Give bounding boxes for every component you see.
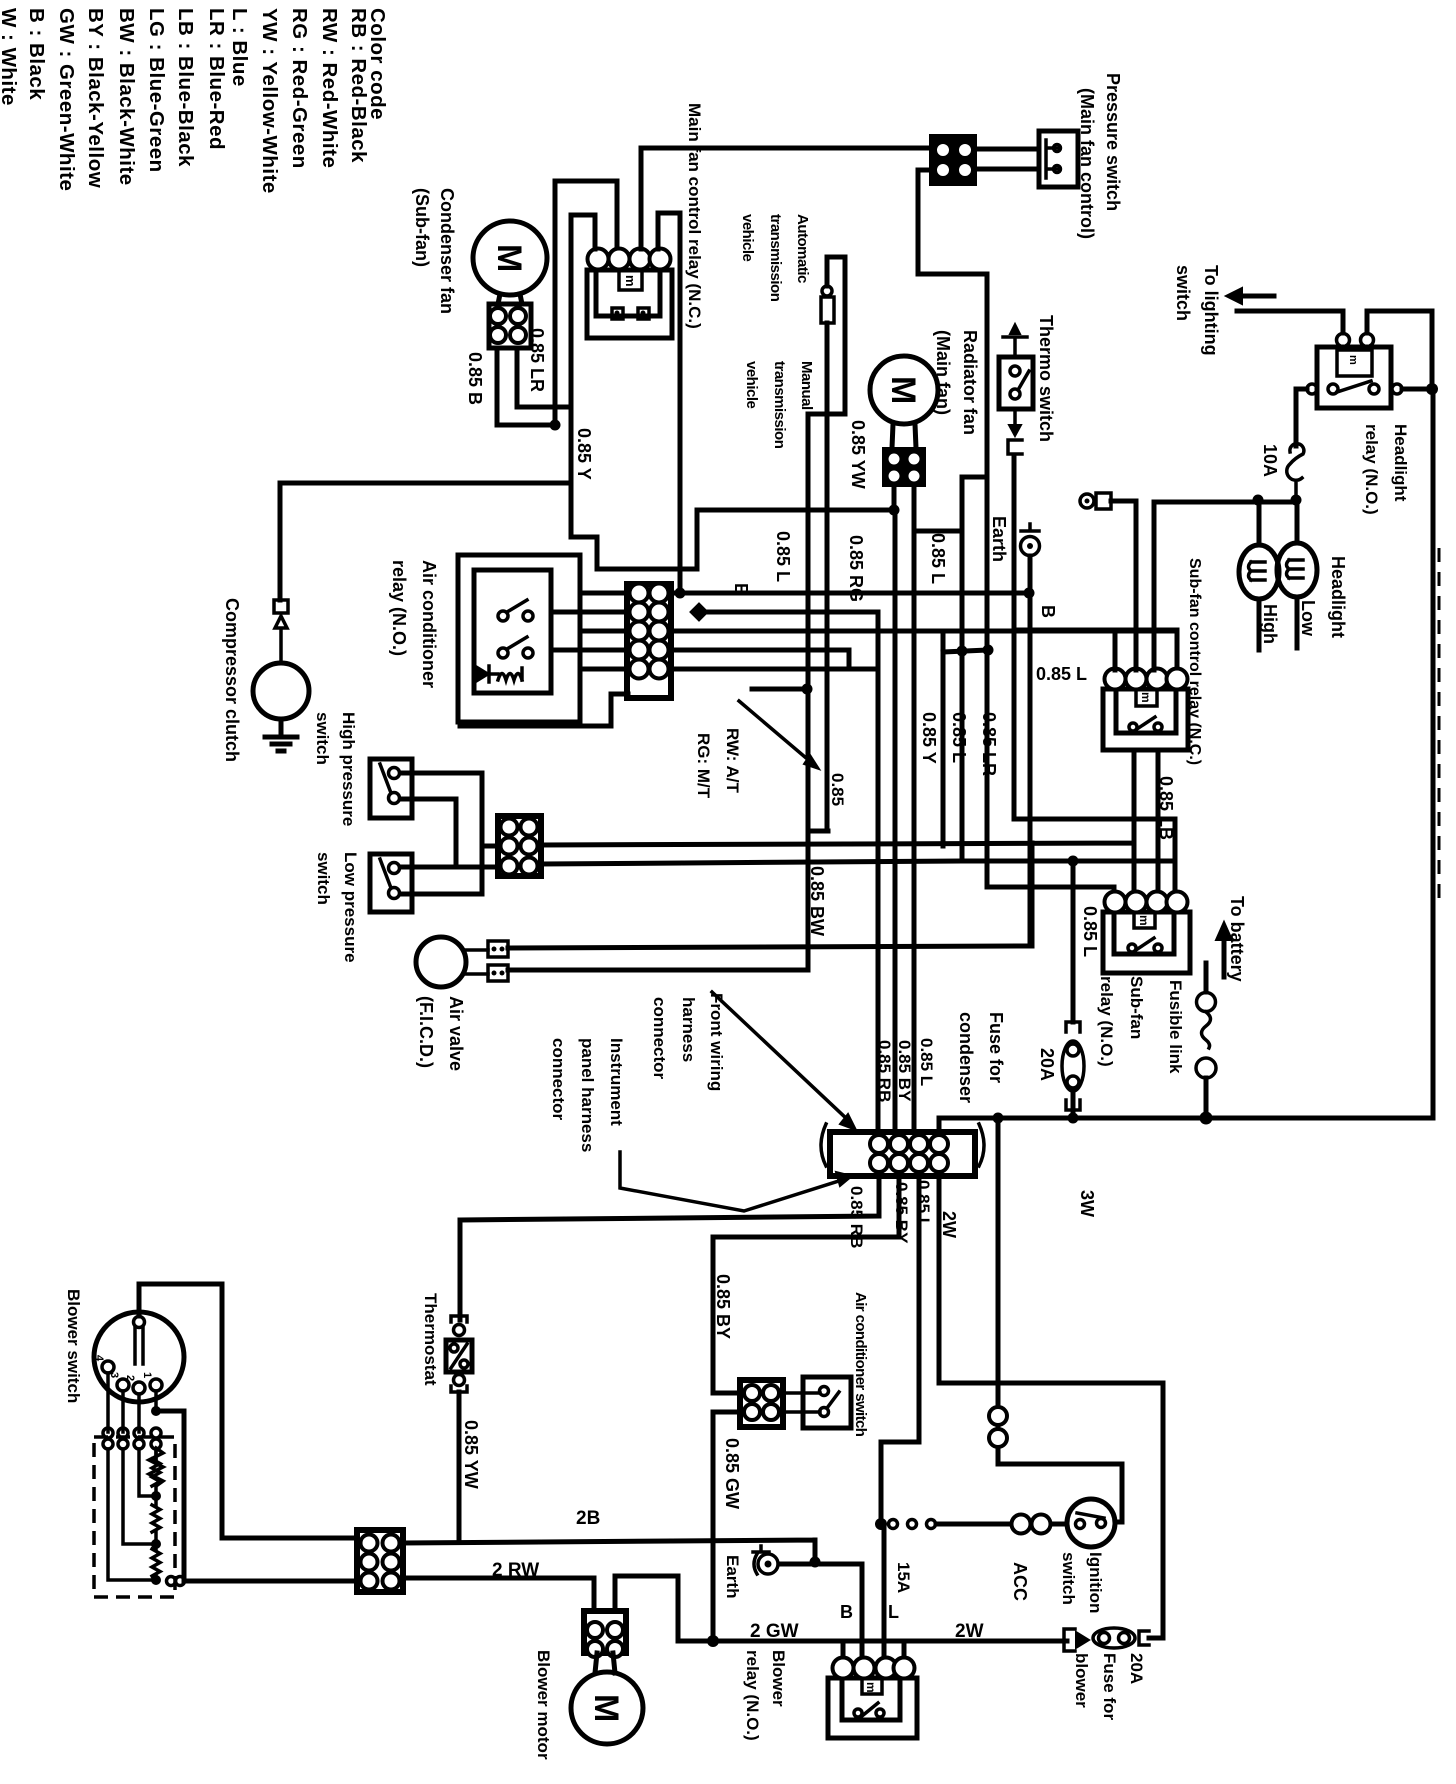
svg-text:0.85 GW: 0.85 GW: [722, 1438, 742, 1509]
wire relay pin3 / pressure switch line: [641, 148, 932, 249]
wire to ignition switch: [1051, 1522, 1067, 1527]
switched bus V571 with jog to connector row1: [571, 215, 894, 569]
svg-text:RG : Red-Green: RG : Red-Green: [288, 8, 311, 169]
label automatic transmission vehicle: [739, 214, 811, 302]
label front wiring harness connector: [650, 993, 726, 1091]
svg-text:B : Black: B : Black: [25, 8, 48, 100]
svg-text:0.85 BY: 0.85 BY: [713, 1274, 733, 1339]
svg-text:Blower switch: Blower switch: [64, 1289, 83, 1403]
main fan control relay (N.C.): [587, 249, 672, 339]
wire radiator fan pin2 jog: [914, 486, 962, 1132]
svg-text:0.85 LB: 0.85 LB: [1156, 776, 1176, 840]
resistor pack dashed box: [94, 1437, 175, 1597]
svg-text:0.85 RG: 0.85 RG: [846, 535, 866, 602]
svg-text:L : Blue: L : Blue: [228, 8, 251, 87]
svg-text:m: m: [864, 1682, 878, 1693]
wire compressor clutch feed: [280, 483, 571, 600]
svg-text:relay (N.O.): relay (N.O.): [1362, 424, 1381, 515]
ignition switch: [1067, 1499, 1115, 1547]
svg-text:Thermostat: Thermostat: [421, 1293, 440, 1386]
wire pin4 top to bus: [937, 1118, 942, 1132]
svg-text:switch: switch: [1173, 265, 1193, 321]
label 20A fuse for blower: [1072, 1653, 1146, 1720]
inline connector pair: [989, 1407, 1007, 1425]
label sub-fan relay (N.O.): [1097, 976, 1146, 1067]
label RW:A/T RG:M/T: [694, 728, 742, 799]
svg-text:RW: A/T: RW: A/T: [723, 728, 742, 793]
wire 2RW to blower motor: [403, 1578, 594, 1611]
svg-text:0.85: 0.85: [828, 773, 847, 806]
sub-fan relay (N.O.): [1103, 892, 1190, 974]
svg-text:Instrument: Instrument: [607, 1038, 626, 1126]
resistor pack pass-through terminals: [103, 1428, 161, 1449]
svg-text:relay (N.O.): relay (N.O.): [743, 1650, 762, 1741]
svg-text:0.85 Y: 0.85 Y: [574, 428, 594, 480]
svg-text:Headlight: Headlight: [1391, 424, 1410, 502]
wire row1 0.85 L to earth junction: [670, 591, 1029, 596]
svg-text:connector: connector: [650, 997, 669, 1080]
fuse for blower 20A: [1093, 1628, 1163, 1648]
svg-text:LG : Blue-Green: LG : Blue-Green: [145, 8, 168, 173]
fusible link: [1196, 963, 1216, 1118]
blower switch: [93, 1312, 184, 1402]
svg-text:connector: connector: [549, 1038, 568, 1121]
compressor clutch connector symbol: [274, 600, 288, 663]
condenser fan motor M (sub-fan): [473, 221, 547, 295]
pressure switch body: [1039, 131, 1078, 187]
svg-text:1: 1: [141, 1372, 153, 1378]
label headlight relay (N.O.): [1362, 424, 1410, 515]
label air valve FICD: [416, 996, 466, 1071]
svg-text:transmission: transmission: [767, 214, 784, 302]
air conditioner relay (N.O.) outer box: [458, 555, 580, 722]
svg-text:2B: 2B: [576, 1508, 600, 1529]
svg-text:switch: switch: [314, 852, 333, 905]
thermostat: [446, 1316, 472, 1540]
radiator fan motor M (main fan): [870, 356, 938, 486]
headlight relay (N.O.): [1307, 334, 1402, 409]
svg-text:Fuse for: Fuse for: [986, 1012, 1006, 1083]
labels 0.85 Y / 0.85 L / 0.85 LR column group: [919, 712, 999, 776]
svg-text:YW : Yellow-White: YW : Yellow-White: [258, 8, 281, 194]
svg-text:m: m: [623, 275, 638, 287]
blower motor connector: [584, 1611, 626, 1657]
svg-text:Low: Low: [1298, 600, 1318, 637]
M/T direct branch bracket: [808, 257, 845, 414]
svg-text:0.85 YW: 0.85 YW: [461, 1420, 481, 1489]
wire 0.85 L earth bus down to air valve line: [1029, 593, 1032, 946]
svg-text:2 RW: 2 RW: [492, 1560, 539, 1581]
svg-text:Front wiring: Front wiring: [707, 993, 726, 1091]
svg-text:Manual: Manual: [798, 361, 815, 410]
svg-text:Air conditioner switch: Air conditioner switch: [852, 1292, 869, 1437]
air conditioner switch: [783, 1377, 851, 1428]
wire row3 to sub-fan control relay pin4: [670, 631, 1177, 670]
svg-text:Ignition: Ignition: [1086, 1552, 1105, 1613]
ACC connector pair: [1012, 1515, 1031, 1534]
svg-text:Air conditioner: Air conditioner: [419, 560, 439, 688]
wires switch terminals to resistor pack: [108, 1373, 156, 1432]
svg-text:Earth: Earth: [723, 1555, 742, 1598]
wire 6-pin to sub-fan relay pin2: [541, 843, 1134, 892]
svg-text:relay (N.O.): relay (N.O.): [1097, 976, 1116, 1067]
svg-text:Fuse for: Fuse for: [1100, 1653, 1119, 1720]
callout arrow front wiring harness: [712, 992, 848, 1120]
svg-text:0.85 B: 0.85 B: [465, 352, 485, 405]
wire relay right pin to bus: [1402, 387, 1427, 392]
svg-text:B: B: [1038, 605, 1058, 618]
svg-text:RG: M/T: RG: M/T: [694, 733, 713, 799]
pressure switch connector: [930, 135, 976, 185]
6-pin connector (blower circuit): [357, 1530, 403, 1592]
labels headlight high low: [1260, 556, 1348, 644]
fuse 10A: [1287, 444, 1304, 500]
wire pin5 0.85 RB to thermostat: [460, 1176, 879, 1320]
wire relay pin4 hook to 10-pin connector: [658, 213, 680, 593]
ground: [265, 719, 297, 751]
svg-text:W : White: W : White: [0, 8, 20, 106]
wire headlight relay pin1: [1237, 311, 1343, 333]
high pressure switch: [370, 759, 412, 818]
svg-text:2: 2: [124, 1375, 136, 1381]
svg-text:M: M: [884, 376, 922, 404]
svg-text:0.85 RB: 0.85 RB: [875, 1040, 894, 1102]
svg-text:Blower motor: Blower motor: [534, 1650, 553, 1760]
wire relay pin1 from switched bus: [571, 215, 595, 249]
svg-text:m: m: [1137, 915, 1151, 926]
fuse 15A: [889, 1520, 1012, 1529]
earth symbol (thermo circuit): [1021, 524, 1040, 593]
label pressure switch (main fan control): [1077, 73, 1123, 239]
svg-text:3W: 3W: [1077, 1190, 1097, 1217]
svg-text:0.85 L: 0.85 L: [1036, 664, 1087, 684]
svg-text:GW : Green-White: GW : Green-White: [55, 8, 78, 191]
svg-text:(F.I.C.D.): (F.I.C.D.): [416, 996, 436, 1068]
svg-text:0.85 BW: 0.85 BW: [807, 866, 827, 936]
wire pressure switch return 0.85 L: [918, 170, 987, 887]
svg-text:RB : Red-Black: RB : Red-Black: [347, 8, 370, 163]
wires pressure switches to 6-pin connector: [401, 773, 499, 894]
svg-text:4: 4: [93, 1355, 105, 1362]
wire 0.85 GW A/C switch to 2GW dot: [713, 1412, 740, 1641]
arrow to battery: [1222, 940, 1227, 977]
wire bus to fuses, N.C. relay pin3: [1154, 502, 1296, 670]
callout arrow instrument panel harness: [620, 1152, 842, 1211]
condenser fan connector: [489, 294, 531, 348]
svg-text:0.85 L: 0.85 L: [928, 533, 948, 584]
wires connector to pressure switch: [976, 149, 1039, 169]
svg-text:(Sub-fan): (Sub-fan): [412, 188, 432, 267]
svg-text:BY : Black-Yellow: BY : Black-Yellow: [84, 8, 107, 188]
main power bus: [939, 1116, 1433, 1121]
labels above 8-pin connector: [875, 1038, 936, 1102]
svg-text:High: High: [1260, 604, 1280, 644]
condenser fan label: [412, 188, 457, 314]
label fuse for condenser: [956, 1012, 1006, 1103]
wire terminal to N.C. relay pin2: [1111, 501, 1136, 670]
svg-text:High pressure: High pressure: [339, 712, 358, 826]
callout arrow to 0.85 wire: [739, 701, 812, 763]
wire row4 0.85 RG with jog: [670, 650, 849, 668]
wire cross-link to pressure verticals: [943, 650, 988, 652]
wire 0.85 L air valve upper: [508, 843, 1032, 948]
label low pressure switch: [314, 852, 360, 963]
blower relay (N.O.): [828, 1658, 917, 1739]
labels below 8-pin connector: [847, 1180, 1097, 1248]
10-pin connector: [627, 584, 671, 699]
wire pin8 3W to fuse for blower: [939, 1176, 1163, 1638]
wire N.C. relay pin1 stub: [1113, 630, 1118, 670]
svg-text:switch: switch: [1059, 1552, 1078, 1605]
pressure branch to sub-fan relay: [962, 477, 987, 861]
label air conditioner relay: [389, 560, 439, 688]
svg-text:Compressor clutch: Compressor clutch: [222, 598, 242, 762]
svg-text:(Main fan): (Main fan): [933, 330, 953, 415]
earth symbol (blower): [753, 1546, 815, 1574]
node row2 diamond junction: [689, 602, 709, 622]
wire 0.85 B condenser fan to relay pin2: [497, 181, 617, 425]
svg-text:Headlight: Headlight: [1328, 556, 1348, 638]
wires N.C. relay bottom pins down to sub-fan relay: [1134, 750, 1158, 892]
svg-text:Fusible link: Fusible link: [1166, 980, 1185, 1074]
relay bottom loop wire: [460, 694, 628, 726]
label radiator fan (main fan): [933, 330, 980, 435]
svg-text:harness: harness: [679, 997, 698, 1062]
node on FICD wire: [752, 687, 807, 692]
wire 2GW to blower relay: [678, 1639, 1067, 1644]
blower motor M: [571, 1653, 643, 1744]
svg-text:Blower: Blower: [769, 1650, 788, 1707]
svg-text:ACC: ACC: [1010, 1562, 1030, 1601]
label manual transmission vehicle: [743, 361, 815, 449]
air conditioner relay inner box: [474, 570, 551, 693]
svg-text:M: M: [490, 244, 528, 272]
svg-text:m: m: [1347, 355, 1359, 365]
svg-text:10A: 10A: [1260, 444, 1280, 477]
arrow to lighting switch: [1242, 294, 1274, 299]
wire headlight relay pin2 to battery bus: [1367, 311, 1432, 389]
wire fuse for condenser: [1071, 861, 1076, 1022]
svg-text:B: B: [840, 1602, 853, 1622]
wire blower motor pin2 loop: [615, 1576, 678, 1641]
wire terminal1 to 2RW: [156, 1411, 184, 1581]
wire row5 to 8-pin bus: [670, 667, 878, 672]
wire branch to N.C. relay pin1/pin4 row: [1014, 628, 1177, 633]
8-pin harness connector: [821, 1124, 984, 1176]
svg-text:Main fan control relay (N.C.): Main fan control relay (N.C.): [685, 103, 704, 329]
battery bus vertical: [1431, 389, 1436, 1118]
svg-text:Low pressure: Low pressure: [341, 852, 360, 963]
air valve (F.I.C.D.): [416, 937, 508, 987]
svg-text:m: m: [1139, 692, 1153, 703]
A/C switch connector: [740, 1380, 783, 1427]
svg-text:3: 3: [108, 1372, 120, 1378]
svg-text:B: B: [731, 583, 751, 596]
lighting switch terminal: [1080, 493, 1111, 509]
sub-fan control relay (N.C.): [1103, 669, 1188, 751]
svg-text:Air valve: Air valve: [446, 996, 466, 1071]
svg-text:2W: 2W: [939, 1211, 959, 1238]
label to lighting switch: [1173, 265, 1221, 356]
wire blower switch feed loop: [139, 1284, 357, 1538]
wire row2 0.85 RB to 8-pin connector: [699, 612, 878, 1132]
wire 2RW from resistor pack: [185, 1579, 357, 1584]
svg-text:Sub-fan control relay (N.C.): Sub-fan control relay (N.C.): [1186, 558, 1203, 765]
wire relay left pin to 10A fuse: [1296, 389, 1307, 446]
wire thermo switch down: [1014, 455, 1175, 892]
fuse for condenser 20A: [1062, 1022, 1084, 1118]
svg-text:Thermo switch: Thermo switch: [1036, 315, 1056, 442]
svg-text:(Main fan control): (Main fan control): [1077, 88, 1097, 239]
wire pin7 0.85 L to 16A fuse dot: [881, 1176, 919, 1524]
wire 0.85 LR condenser fan: [517, 348, 571, 407]
svg-text:LR : Blue-Red: LR : Blue-Red: [205, 8, 228, 150]
svg-text:0.85 L: 0.85 L: [1080, 906, 1100, 957]
svg-text:vehicle: vehicle: [743, 361, 760, 409]
svg-text:RW : Red-White: RW : Red-White: [318, 8, 341, 168]
svg-text:L: L: [888, 1602, 899, 1622]
wires relay to 10-pin connector: [551, 593, 628, 669]
wire branch row3 to sub-fan relay pin2 line: [941, 631, 946, 846]
wire pin6 0.85 BY to A/C switch: [713, 1176, 899, 1393]
svg-text:relay (N.O.): relay (N.O.): [389, 560, 409, 656]
relay switch 1: [498, 600, 533, 621]
label blower relay (N.O.): [743, 1650, 788, 1741]
resistor taps: [108, 1449, 150, 1580]
6-pin connector (pressure switches): [498, 816, 541, 876]
compressor clutch coil: [253, 663, 309, 719]
svg-text:LB : Blue-Black: LB : Blue-Black: [174, 8, 197, 167]
svg-text:0.85 LR: 0.85 LR: [979, 712, 999, 776]
relay diode and coil: [476, 666, 522, 682]
svg-text:Pressure switch: Pressure switch: [1103, 73, 1123, 211]
drops to blower relay pins: [843, 1524, 904, 1658]
label high pressure switch: [313, 712, 358, 826]
svg-text:Radiator fan: Radiator fan: [960, 330, 980, 435]
svg-text:To lighting: To lighting: [1201, 265, 1221, 356]
wire to sub-fan relay pin1: [987, 887, 1114, 946]
svg-text:0.85 YW: 0.85 YW: [848, 420, 868, 489]
svg-text:0.85 BY: 0.85 BY: [895, 1040, 914, 1102]
svg-text:panel harness: panel harness: [578, 1038, 597, 1152]
svg-text:0.85 L: 0.85 L: [773, 531, 793, 582]
svg-text:2W: 2W: [955, 1621, 984, 1642]
wire 2W branch from bus: [998, 1118, 1122, 1522]
svg-text:0.85 L: 0.85 L: [917, 1038, 936, 1086]
wire radiator fan pin1 0.85 YW down to 8-pin: [894, 486, 895, 1132]
wire 0.85 BW FICD feed: [508, 414, 828, 970]
label ignition switch: [1059, 1552, 1105, 1613]
thermo switch: [999, 324, 1033, 454]
dashed scan line: [1438, 548, 1441, 905]
headlight low bulb: [1239, 500, 1279, 650]
svg-text:blower: blower: [1072, 1653, 1091, 1708]
svg-text:vehicle: vehicle: [739, 214, 756, 262]
svg-text:20A: 20A: [1037, 1048, 1057, 1081]
svg-text:0.85 Y: 0.85 Y: [919, 712, 939, 764]
svg-text:0.85 L: 0.85 L: [949, 712, 969, 763]
relay switch 2: [498, 637, 533, 658]
svg-text:switch: switch: [313, 712, 332, 765]
svg-text:transmission: transmission: [771, 361, 788, 449]
svg-text:BW : Black-White: BW : Black-White: [115, 8, 138, 186]
svg-text:Automatic: Automatic: [794, 214, 811, 283]
label instrument panel harness connector: [549, 1038, 626, 1152]
svg-text:M: M: [587, 1694, 625, 1722]
svg-text:20A: 20A: [1127, 1653, 1146, 1684]
resistor chain: [149, 1448, 163, 1486]
low pressure switch: [370, 854, 412, 912]
terminal to blower: [1064, 1629, 1075, 1651]
svg-text:0.85 LR: 0.85 LR: [527, 328, 547, 392]
A/T resistor branch: [821, 257, 834, 831]
svg-text:2 GW: 2 GW: [750, 1621, 799, 1642]
svg-text:Earth: Earth: [989, 516, 1009, 562]
svg-text:Sub-fan: Sub-fan: [1127, 976, 1146, 1039]
color code legend: [0, 8, 389, 194]
resistor pack exit terminals: [167, 1577, 176, 1586]
wire 6-pin to sub-fan relay pin4 line: [541, 861, 1175, 864]
svg-text:15A: 15A: [894, 1562, 913, 1593]
wire 2B / B to blower relay pin2: [403, 1540, 862, 1658]
svg-text:condenser: condenser: [956, 1012, 976, 1103]
headlight high bulb: [1277, 500, 1317, 648]
svg-text:Condenser fan: Condenser fan: [437, 188, 457, 314]
